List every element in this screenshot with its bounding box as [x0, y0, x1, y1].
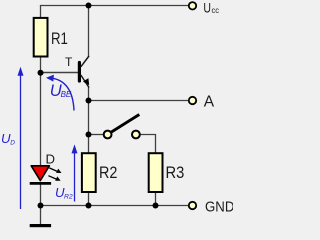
node junction R3 bottom: [153, 203, 159, 209]
terminal GND: [189, 200, 235, 216]
svg-text:T: T: [65, 55, 73, 69]
wire bottom rail to GND terminal: [41, 205, 193, 207]
svg-text:R2: R2: [99, 164, 117, 182]
svg-text:GND: GND: [205, 200, 233, 216]
terminal A: [189, 94, 215, 111]
svg-text:A: A: [204, 94, 215, 111]
voltage arrow UD: [1, 67, 24, 209]
wire R3 bottom to bottom rail: [155, 193, 157, 206]
svg-text:R1: R1: [51, 30, 68, 48]
wire node to A terminal: [89, 100, 193, 102]
wire R2 bottom to bottom rail: [88, 193, 90, 206]
svg-text:U: U: [203, 0, 211, 15]
node junction emitter / A: [86, 98, 92, 104]
svg-text:D: D: [10, 140, 15, 147]
voltage arrow UBE (curved): [46, 75, 74, 111]
svg-text:cc: cc: [212, 6, 220, 15]
voltage arrow UR2: [55, 144, 78, 201]
resistor R3: [149, 153, 185, 192]
svg-text:BE: BE: [61, 90, 72, 99]
wire base from node to transistor base bar: [41, 72, 79, 74]
resistor R1: [34, 18, 68, 57]
wire top rail from R1 top to Ucc terminal: [41, 6, 193, 19]
wire node to switch left contact: [89, 134, 104, 136]
terminal Ucc: [189, 0, 219, 15]
wire collector drop from top rail: [88, 6, 90, 58]
switch S: [104, 115, 140, 139]
transistor T: [65, 55, 89, 87]
node junction top rail / collector: [86, 3, 92, 9]
node junction switch branch: [86, 132, 92, 138]
svg-text:R2: R2: [64, 194, 73, 201]
wire ground stem: [40, 206, 42, 225]
wire emitter down to R2 top: [88, 87, 90, 153]
wire LED bottom to ground node: [40, 184, 42, 206]
wire left branch R1 bottom to LED top: [40, 58, 42, 166]
node junction base: [38, 70, 44, 76]
svg-text:D: D: [46, 151, 56, 166]
ground: [30, 224, 51, 227]
wire switch right contact to R3 top: [140, 135, 156, 154]
node junction R2 bottom: [86, 203, 92, 209]
svg-text:R3: R3: [166, 164, 185, 182]
LED D: [30, 151, 62, 183]
resistor R2: [82, 153, 118, 192]
node junction ground left: [38, 203, 44, 209]
